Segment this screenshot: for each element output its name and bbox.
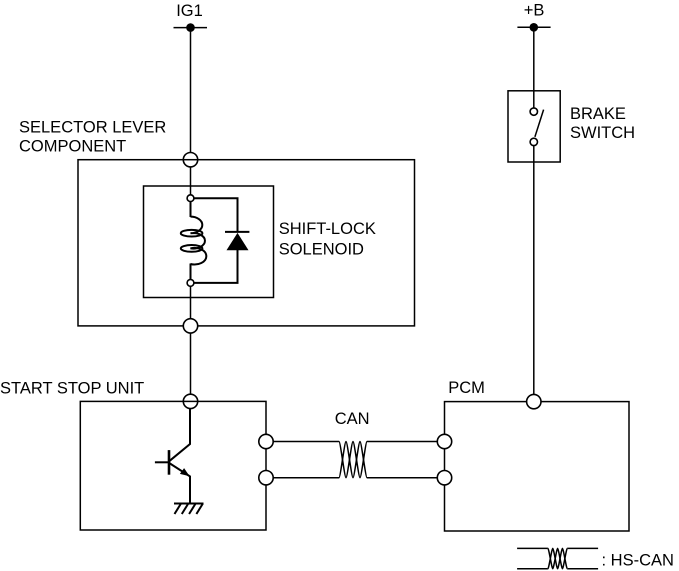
twisted pair CAN — [339, 442, 367, 478]
transistor Q1 emitter arrowhead — [180, 468, 190, 476]
svg-text:SWITCH: SWITCH — [570, 124, 635, 142]
svg-text:SELECTOR LEVER: SELECTOR LEVER — [19, 118, 166, 136]
svg-text:+B: +B — [524, 1, 545, 19]
switch contact bottom — [530, 138, 537, 145]
svg-text:BRAKE: BRAKE — [570, 105, 626, 123]
box START STOP UNIT — [80, 401, 266, 530]
wire +B to brake switch — [533, 27, 535, 108]
wire diode to solenoid bottom circle — [194, 250, 238, 283]
box brake switch — [508, 91, 560, 162]
wire coil to solenoid bottom circle — [190, 264, 192, 280]
diode D1 triangle — [227, 233, 249, 250]
svg-text:SOLENOID: SOLENOID — [279, 240, 364, 258]
node circle start stop unit top — [183, 394, 197, 408]
svg-text:SHIFT-LOCK: SHIFT-LOCK — [279, 220, 376, 238]
svg-text:: HS-CAN: : HS-CAN — [602, 552, 674, 570]
wire IG1 to selector box — [190, 28, 192, 153]
wire brake switch to PCM — [533, 146, 535, 395]
switch contact top — [530, 108, 537, 115]
node small circle solenoid bottom — [187, 280, 194, 287]
svg-text:IG1: IG1 — [176, 2, 203, 20]
svg-text:COMPONENT: COMPONENT — [19, 138, 126, 156]
node circle PCM CAN high — [437, 434, 451, 448]
wire selector box to start stop unit — [190, 333, 192, 394]
node circle selector box top — [183, 153, 197, 167]
transistor Q1 emitter with arrow — [169, 463, 190, 504]
box SELECTOR LEVER COMPONENT — [78, 160, 415, 326]
transistor Q1 collector wire — [169, 409, 190, 462]
wire solenoid top circle to coil — [190, 202, 192, 217]
inductor coil L1 — [191, 217, 207, 265]
diode D1 cathode bar — [225, 231, 249, 233]
svg-text:CAN: CAN — [335, 410, 370, 428]
node circle PCM CAN low — [437, 471, 451, 485]
switch blade — [535, 110, 544, 137]
wire CAN low right — [367, 477, 437, 479]
wire CAN low left — [273, 477, 339, 479]
box shift-lock solenoid — [144, 186, 274, 298]
node circle selector box bottom — [183, 319, 197, 333]
node circle PCM top — [527, 394, 541, 408]
box PCM — [445, 402, 630, 531]
power terminal IG1 — [174, 23, 208, 32]
wire solenoid top circle to diode branch — [194, 198, 238, 232]
node small circle solenoid top — [187, 195, 194, 202]
legend twisted pair symbol — [517, 548, 598, 568]
power terminal +B — [517, 23, 550, 32]
wire node to solenoid — [190, 167, 192, 195]
wire CAN high right — [367, 441, 437, 443]
wire CAN high left — [273, 441, 339, 443]
node circle start stop unit CAN low — [259, 471, 273, 485]
ground symbol — [174, 504, 204, 515]
transistor Q1 base bar — [168, 450, 171, 475]
wire solenoid bottom circle to selector box bottom node — [190, 286, 192, 318]
svg-text:START STOP UNIT: START STOP UNIT — [0, 379, 144, 397]
transistor Q1 base lead — [155, 461, 169, 463]
node circle start stop unit CAN high — [259, 434, 273, 448]
svg-text:PCM: PCM — [448, 379, 485, 397]
